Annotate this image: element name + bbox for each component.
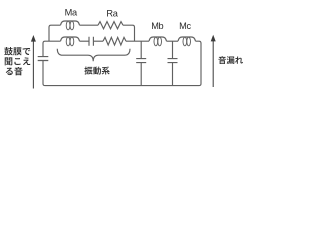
arrow right (output: sound leak) — [211, 35, 216, 87]
inductor Mb — [149, 37, 167, 41]
label 鼓膜で (line 1 of eardrum label) — [4, 47, 13, 55]
capacitor C2 (second shunt) with stubs — [168, 41, 178, 85]
wire: top-left corner, vertical to node A — [49, 25, 61, 41]
label 音漏れ — [218, 56, 226, 64]
svg-text:Mb: Mb — [151, 21, 163, 31]
label 振動系 — [84, 67, 92, 75]
wire: right corner, vertical down to bottom rail — [196, 41, 202, 85]
inductor Ma — [61, 21, 80, 25]
capacitor (bottom branch, series) plates — [89, 37, 93, 46]
wire: left shunt lower segment to bottom rail — [43, 61, 45, 86]
svg-text:Ra: Ra — [106, 9, 118, 19]
wire — [80, 24, 99, 26]
brace: vibration system group — [57, 49, 130, 62]
label る音 (line 3) — [6, 68, 13, 75]
wire: node B to Mb — [126, 40, 149, 42]
arrow left (input: sound heard at eardrum) — [31, 35, 36, 89]
wire: bottom rail — [45, 85, 199, 87]
wire: top-right corner, vertical down to node B — [123, 25, 135, 41]
wire — [167, 40, 179, 42]
capacitor C1 (first shunt) with stubs — [136, 41, 146, 85]
wire: node A horizontal + corner into left shunt — [43, 41, 61, 56]
resistor (bottom branch, unlabeled) — [103, 37, 126, 45]
wire — [80, 40, 90, 42]
svg-text:Ma: Ma — [65, 8, 78, 18]
capacitor (left shunt) plates — [38, 57, 49, 61]
inductor Mc — [178, 37, 196, 41]
wire — [93, 40, 103, 42]
label 聞こえ (line 2) — [5, 57, 13, 65]
resistor Ra — [98, 22, 123, 29]
inductor (bottom branch, unlabeled) — [61, 37, 80, 41]
svg-text:Mc: Mc — [179, 21, 191, 31]
